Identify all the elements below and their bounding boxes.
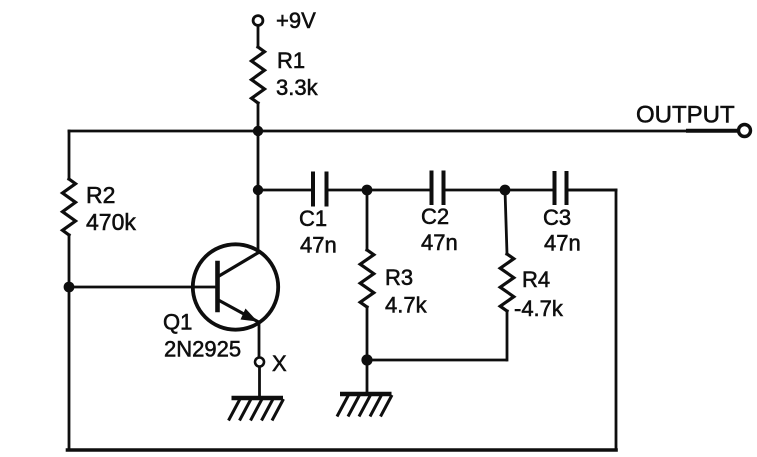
svg-text:X: X [272,351,287,376]
svg-text:47n: 47n [544,231,581,256]
svg-text:R1: R1 [277,48,305,73]
svg-text:Q1: Q1 [163,310,192,335]
svg-text:R2: R2 [86,182,115,208]
svg-text:OUTPUT: OUTPUT [636,102,735,129]
svg-text:R4: R4 [522,267,550,292]
svg-text:R3: R3 [385,265,413,290]
svg-text:47n: 47n [300,233,337,258]
svg-text:3.3k: 3.3k [276,75,319,100]
svg-text:C2: C2 [421,204,449,229]
svg-text:2N2925: 2N2925 [164,337,241,362]
svg-text:4.7k: 4.7k [385,293,428,318]
svg-text:C3: C3 [543,205,571,230]
svg-text:-4.7k: -4.7k [514,296,564,321]
svg-text:C1: C1 [299,206,327,231]
svg-text:+9V: +9V [276,8,316,33]
svg-text:47n: 47n [421,230,458,255]
svg-text:470k: 470k [86,209,136,235]
